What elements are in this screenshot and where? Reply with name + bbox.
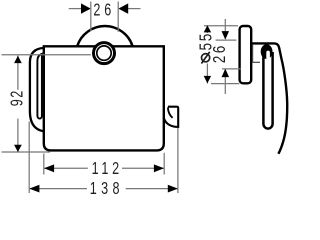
svg-text:138: 138 — [90, 179, 124, 199]
front view: right bar tip hook outline — [164, 107, 178, 127]
dimension D55 (side): up arrow — [204, 25, 211, 32]
dimension 26 (top): left extension line — [90, 2, 92, 31]
dimension 26 (top): left stub — [69, 8, 82, 10]
side view: bar bend over pivot (solid) — [261, 44, 273, 59]
dimension 138 (bottom): left extension line — [28, 122, 30, 194]
front view: spindle outer circle — [94, 43, 115, 64]
front view: thin bottom extension line — [2, 151, 51, 153]
front view: right bar tip inner curve — [168, 108, 173, 118]
dimension 112 (bottom): right extension line — [163, 153, 165, 175]
side view: wall plate disc — [240, 26, 252, 83]
svg-text:26: 26 — [211, 43, 230, 63]
dimension 138 (bottom): left arrow — [29, 185, 39, 193]
dimension 26 (side): bottom extension line — [222, 68, 241, 70]
side view: hanging bar leg outline — [263, 52, 272, 129]
dimension 92 (left): top arrow — [14, 56, 22, 63]
dimension D55 (side): bottom extension line — [211, 83, 239, 85]
dimension 112 (bottom): left line segment — [44, 167, 88, 169]
dimension 112 (bottom): right arrow — [154, 164, 164, 172]
front view: spindle inner circle — [97, 46, 111, 60]
dimension 138 (bottom): right extension line — [177, 128, 179, 193]
dimension 26 (top): right extension line — [117, 2, 119, 32]
dimension 26 (side): up arrow — [222, 69, 230, 78]
front view: cover plate rectangle — [44, 46, 164, 150]
side view: pivot boss bottom edge — [253, 61, 260, 63]
dimension D55 (side): down arrow — [204, 76, 211, 84]
dimension 26 (side): lower line segment — [224, 69, 226, 94]
dimension 112 (bottom): right line segment — [122, 167, 164, 169]
dimension 26 (top): right stub — [128, 8, 141, 10]
svg-text:26: 26 — [93, 1, 115, 21]
dimension 26 (side): down arrow — [222, 31, 230, 39]
dimension D55 (side): upper line segment — [206, 26, 208, 33]
front view: roll bar outer contour (left) — [30, 48, 44, 131]
dimension 138 (bottom): right line segment — [126, 188, 178, 190]
dimension 138 (bottom): left line segment — [30, 188, 87, 190]
dimension 112 (bottom): left arrow — [44, 164, 54, 172]
dimension 138 (bottom): right arrow — [168, 185, 178, 193]
side view: white slot inside bar loop — [266, 51, 270, 126]
dimension 26 (side): top extension line — [216, 39, 237, 41]
front view: thin seam line to spindle — [2, 54, 91, 56]
dimension D55 (side): diameter symbol — [202, 54, 210, 62]
dimension 92 (left): upper line segment — [17, 55, 19, 89]
front view: mounting dome arc on top — [77, 26, 132, 46]
dimension D55 (side): lower line segment — [206, 64, 208, 84]
dimension 112 (bottom): left extension line — [43, 154, 45, 175]
front view: roll bar inner contour with bottom U-turn — [37, 53, 43, 118]
svg-text:92: 92 — [7, 89, 27, 106]
side view: cover top edge and sweeping front curve — [252, 43, 288, 153]
dimension 92 (left): bottom arrow — [14, 145, 22, 152]
dimension 26 (top): right arrow — [118, 3, 128, 13]
svg-text:112: 112 — [92, 159, 123, 179]
dimension D55 (side): top extension line — [204, 25, 238, 27]
side view: pivot boss left edge — [252, 45, 254, 63]
dimension 26 (top): left arrow — [81, 3, 91, 13]
dimension 26 (side): upper line segment — [224, 19, 226, 39]
dimension 92 (left): lower line segment — [17, 119, 19, 152]
